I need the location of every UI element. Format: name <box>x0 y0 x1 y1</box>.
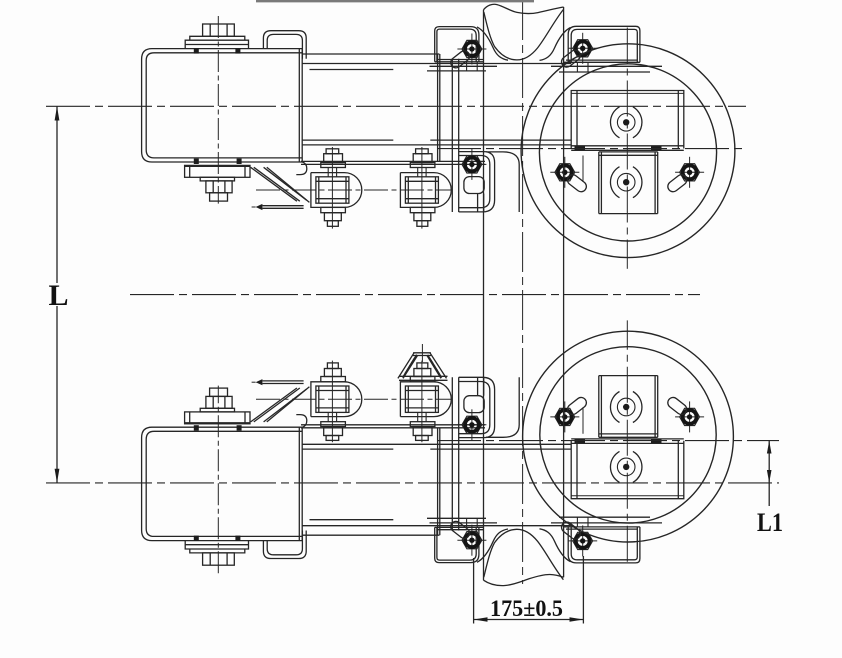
top break wave <box>484 4 564 13</box>
wedge (bottom only) <box>398 344 448 380</box>
diagonal braces <box>251 167 297 201</box>
saddle lines <box>301 160 485 162</box>
svg-text:L: L <box>49 279 69 312</box>
right clamp verticals <box>437 54 439 161</box>
wheel bottom horizontal centerline <box>437 440 779 442</box>
weld marks <box>194 48 662 164</box>
C-channel bracket inner <box>146 53 302 158</box>
lower rect <box>599 151 658 153</box>
rollers centerline <box>256 189 451 191</box>
middle centerline <box>130 294 700 296</box>
wheel circles <box>521 44 735 258</box>
roller 1 <box>311 147 362 229</box>
top edge artifact line <box>256 0 534 2</box>
center mark lower <box>610 167 641 198</box>
ear tab outer <box>263 31 306 59</box>
upper rect <box>571 91 684 149</box>
bracket centerline <box>217 16 219 204</box>
175 dimension <box>474 556 584 624</box>
pointed rod <box>262 205 303 207</box>
right clamp bolt <box>457 149 486 180</box>
C-channel bracket outer <box>142 49 303 162</box>
wheel vertical centerline <box>626 28 628 269</box>
pole right edge <box>563 7 565 577</box>
svg-text:175±0.5: 175±0.5 <box>490 596 563 621</box>
roller 2 <box>400 147 451 229</box>
wheel top horizontal centerline <box>437 148 746 150</box>
pole clamp left plate <box>435 27 479 62</box>
ear tab inner <box>267 34 302 58</box>
short vertical near wheel <box>582 156 584 183</box>
bracket right wall <box>298 49 300 162</box>
svg-text:L1: L1 <box>757 508 783 537</box>
arm lines <box>302 53 439 55</box>
wheel left bolt + loop <box>550 157 579 188</box>
wheel right bolt + loop <box>675 157 704 188</box>
pole left edge <box>483 10 485 580</box>
pole clamp right plate <box>568 26 640 62</box>
top flange plate <box>185 40 248 48</box>
L1 dimension line <box>767 441 772 506</box>
bottom break wave <box>484 574 564 585</box>
pole centerline <box>522 0 524 584</box>
bottom centerline <box>46 482 779 484</box>
bottom flange <box>185 165 250 177</box>
L dimension line <box>55 106 60 483</box>
bracket bottom-right curl <box>296 162 307 175</box>
bottom bolt stack <box>200 177 234 181</box>
center mark upper <box>610 107 641 138</box>
top hex nut <box>203 24 235 36</box>
top centerline <box>46 105 746 107</box>
pole clamp saddle strap <box>484 10 564 60</box>
right clamp plate <box>459 152 495 212</box>
